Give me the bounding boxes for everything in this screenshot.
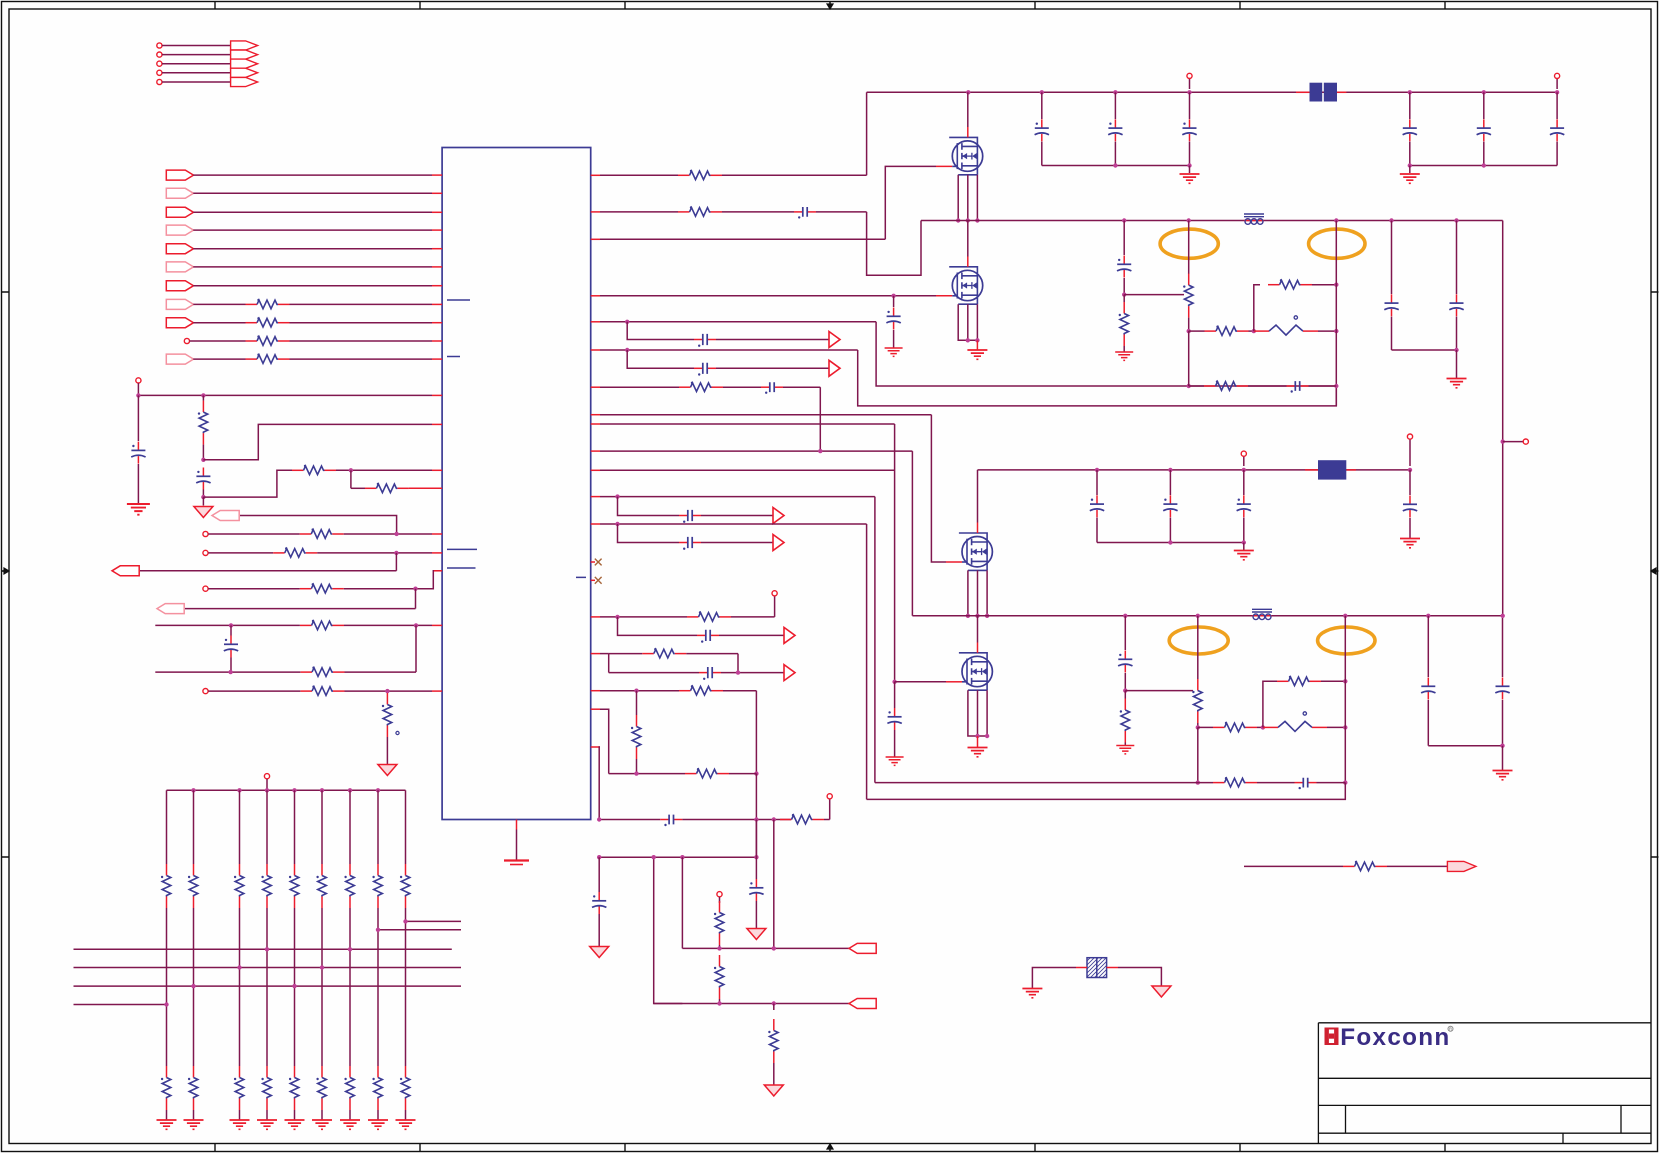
wire IN6 to U1 bbox=[193, 266, 432, 268]
wire Q2 drain from SW rail bbox=[967, 221, 969, 257]
capacitor C2 vertical bbox=[202, 468, 204, 477]
pull-up resistor RA2 bbox=[193, 790, 195, 864]
wire with series resistor R12 to U1 bbox=[190, 340, 246, 342]
capacitor C16 rail decoupling bbox=[1041, 92, 1043, 119]
wire OUT1 to jog into row 534 bbox=[240, 516, 397, 534]
wire IN3 to U1 bbox=[193, 211, 432, 213]
pull-up resistor RA3 bbox=[239, 790, 241, 864]
pin circle row 553 bbox=[203, 550, 208, 555]
wire U1 row 424 to Q4 gate riser bbox=[591, 423, 600, 425]
wire Q4 source bus to ground bbox=[968, 690, 987, 736]
capacitor C18 rail decoupling bbox=[1189, 92, 1191, 119]
wire U1 row 295 to Q2 gate bbox=[591, 295, 600, 297]
wire Q4 drain from SW2 rail bbox=[977, 616, 979, 643]
resistor R13 vertical to gnd arrow bbox=[773, 1019, 775, 1031]
inductor L1 symbol on SW1 rail bbox=[1244, 220, 1264, 222]
ground bbox=[257, 1120, 277, 1129]
pull-up resistor RA5 bbox=[294, 790, 296, 864]
pull-down resistor RB7 bbox=[349, 908, 351, 1066]
svg-text:Foxconn: Foxconn bbox=[1340, 1024, 1450, 1051]
wire R20 bottom to node 459.8 bbox=[202, 445, 204, 460]
pin circle row 691 bbox=[203, 689, 208, 694]
wire TP1 down to node bbox=[137, 383, 139, 395]
resistor R16 vertical bbox=[1188, 274, 1190, 286]
wire SW1 rail end drop x1503 bbox=[1502, 221, 1504, 616]
pull-up resistor RA4 bbox=[266, 790, 268, 864]
resistor R10 bbox=[597, 817, 601, 821]
wire U1 row 387 with R4 and C8 bbox=[591, 386, 600, 388]
capacitor C31 from SW2 bbox=[1123, 614, 1127, 618]
wire U1 row 747 drop to bottom rail bbox=[591, 746, 600, 748]
trimmer resistor VR2 bbox=[1263, 726, 1278, 728]
wire U1 right row 175 to top rail bbox=[591, 174, 600, 176]
output caps C24 C25 stage1 bbox=[1389, 218, 1393, 222]
test point circle TP1 bbox=[136, 378, 141, 383]
mid rail cap bus to ground bbox=[1097, 542, 1244, 544]
row 672 cap C12 to probe arrow bbox=[609, 672, 699, 674]
wire link row672 up to row 625 bbox=[415, 625, 417, 672]
wire row 534 with resistor R23 bbox=[208, 533, 299, 535]
wire row 1003 from jog bbox=[654, 857, 683, 1003]
wire IN4 to U1 bbox=[193, 229, 432, 231]
MOSFET Q4 low-side stage2 bbox=[959, 653, 993, 690]
wire drop x820 to row 451 bbox=[819, 387, 821, 451]
output port OUT3 left-pointing bbox=[157, 604, 184, 614]
MOSFET Q3 high-side stage2 bbox=[959, 533, 993, 570]
wire SW1 rail bbox=[921, 220, 1503, 222]
ground bbox=[127, 504, 150, 515]
output port OUT1 left-pointing bbox=[212, 511, 239, 521]
cap bank 2 bus to ground bbox=[1410, 165, 1557, 167]
wire row 589 with resistor R25 bbox=[208, 588, 299, 590]
stub to test circle x1527 bbox=[1503, 441, 1523, 443]
orange highlight ellipse 4 bbox=[1318, 627, 1375, 654]
pull-down resistor RB5 bbox=[294, 908, 296, 1066]
resistor R20 vertical bbox=[202, 401, 204, 413]
branch cap C7 to probe arrow bbox=[627, 350, 694, 368]
wire DC mid rail y470 bbox=[978, 469, 1411, 471]
orange highlight ellipse 2 bbox=[1309, 229, 1365, 258]
pull-down resistor RB8 bbox=[377, 908, 379, 1066]
wire bottom rail row 819 bbox=[599, 819, 660, 821]
test circle above row 819 bbox=[829, 799, 831, 820]
pull-down resistor RB4 bbox=[266, 908, 268, 1066]
wire row 553 with resistor R24 bbox=[208, 552, 273, 554]
wire U1 row 322 to feedback loop bbox=[591, 321, 600, 323]
divider circle TP bbox=[717, 892, 722, 897]
capacitor C21 output filter bbox=[1556, 92, 1558, 119]
pull-down resistor RB9 bbox=[405, 908, 407, 1066]
connector pin P2 with wire and output arrow bbox=[157, 52, 162, 57]
capacitor C17 rail decoupling bbox=[1114, 92, 1116, 119]
trimmer resistor VR1 bbox=[1254, 330, 1269, 332]
connector pin P5 with wire and output arrow bbox=[157, 79, 162, 84]
ground bbox=[312, 1120, 332, 1129]
capacitor C1 to ground bbox=[137, 395, 139, 441]
wire node497 jog up to row 470 with resistor R21 bbox=[203, 470, 292, 497]
wire U1 row 497 loop A bbox=[591, 496, 600, 498]
cap bank bus to ground bbox=[1042, 165, 1190, 167]
capacitor C13 bbox=[682, 819, 791, 821]
resistor R32 vertical bbox=[1197, 679, 1199, 691]
wire row 727 with resistor R33 and trimmer bbox=[1198, 726, 1213, 728]
fuse/bead F2 block bbox=[1305, 469, 1318, 471]
wire with series resistor R10 to U1 bbox=[193, 303, 245, 305]
Foxconn logo mark bbox=[1325, 1028, 1339, 1046]
wire link 654 to 672 bbox=[608, 654, 610, 673]
ground bbox=[285, 1120, 305, 1129]
resistor R11 vertical bbox=[719, 901, 721, 913]
branch cap C11 to probe arrow bbox=[618, 617, 698, 636]
resistor array top bus bbox=[167, 789, 406, 791]
connector pin P1 with wire and output arrow bbox=[157, 43, 162, 48]
output port right-pointing bbox=[1447, 861, 1476, 871]
wire sense leg x1345 bbox=[1343, 614, 1347, 618]
IC U1 internal pin marks bbox=[447, 300, 586, 577]
connector pin P3 with wire and output arrow bbox=[157, 61, 162, 66]
orange highlight ellipse 3 bbox=[1169, 627, 1228, 654]
capacitor C27 mid rail decoupling bbox=[1096, 470, 1098, 495]
capacitor C22 from SW1 bbox=[1122, 218, 1126, 222]
wire with series resistor R11 to U1 bbox=[193, 322, 245, 324]
wire divider leg x1188 bbox=[1187, 218, 1191, 222]
wire down to row 488 with resistor R22 bbox=[350, 470, 352, 488]
wire IN5 to U1 bbox=[193, 248, 432, 250]
capacitor C29 mid rail decoupling bbox=[1243, 470, 1245, 495]
output port left-pointing bbox=[849, 943, 876, 953]
capacitor C5 Q2 gate to ground bbox=[893, 296, 895, 307]
wire C31 node to R30 bbox=[1125, 690, 1193, 692]
resistor R15 vertical below node bbox=[1123, 302, 1125, 314]
test circle above rail end x1410 bbox=[1409, 439, 1411, 466]
ground bbox=[157, 1120, 177, 1129]
wire divider leg down to row 782 bbox=[1197, 727, 1199, 782]
input port IN4 bbox=[166, 225, 193, 235]
U1 bottom pin to ground bbox=[516, 820, 518, 830]
wire U1 pin 570.8 jog down to row 589 bbox=[416, 571, 443, 589]
wire x773 link rows 819-948 bbox=[773, 820, 775, 949]
capacitor C26 at rail end bbox=[1409, 470, 1411, 495]
test circle on rail x1189 bbox=[1189, 79, 1191, 90]
ground bbox=[230, 1120, 250, 1129]
wire U1 row 654 with resistor R6 bbox=[591, 653, 600, 655]
wire x682 link rows 857-948 bbox=[681, 857, 683, 948]
branch cap C6 to probe arrow bbox=[627, 322, 694, 340]
input port IN1 bbox=[166, 170, 193, 180]
output port left-pointing 2 bbox=[849, 999, 876, 1009]
wire U1 row 470 joins Q4 gate riser bbox=[591, 469, 600, 471]
wire SW2 rail bbox=[912, 615, 1502, 617]
resistor R29 vertical to ground arrow bbox=[386, 693, 388, 705]
pull-up resistor RA8 bbox=[377, 790, 379, 864]
wire U1 row 212 with resistor R3 and cap C4 bbox=[591, 211, 600, 213]
wire OUT3 row bbox=[185, 608, 416, 610]
wire IN1 to U1 bbox=[193, 174, 432, 176]
test circle above rail x1243 bbox=[1243, 456, 1245, 466]
wire sense leg x1336 bbox=[1334, 218, 1338, 222]
resistor R35 on row 782 bbox=[1213, 782, 1225, 784]
input port IN9 bbox=[166, 318, 193, 328]
wire feedback drop x876 bbox=[876, 322, 1336, 386]
wire Q3 drain from mid rail bbox=[977, 470, 979, 523]
MOSFET Q1 high-side bbox=[949, 137, 983, 174]
svg-text:R: R bbox=[1449, 1027, 1452, 1032]
ground bbox=[368, 1120, 388, 1129]
pull-up resistor RA9 bbox=[405, 790, 407, 864]
wire jog row212 to SW node bbox=[867, 212, 921, 275]
input port IN6 bbox=[166, 262, 193, 272]
MOSFET Q2 low-side bbox=[949, 267, 983, 304]
wire divider leg down to row 386 bbox=[1188, 331, 1190, 386]
connector pin P4 with wire and output arrow bbox=[157, 70, 162, 75]
wire node row y395 to U1 bbox=[138, 394, 432, 396]
wire loop B down x866 to row 799 bbox=[866, 524, 868, 799]
output caps C33 C34 stage2 bbox=[1426, 614, 1430, 618]
wire Q1 drain from rail bbox=[967, 92, 969, 127]
ground bbox=[340, 1120, 360, 1129]
wire top supply rail bbox=[867, 91, 1558, 93]
capacitor C19 output filter bbox=[1409, 92, 1411, 119]
wire C22 node to R14 bbox=[1124, 294, 1184, 296]
title block table bbox=[1318, 1023, 1651, 1144]
pin pad circle bbox=[184, 338, 189, 343]
wire link 589 down to connector row 608.6 bbox=[415, 589, 417, 609]
resistor R8 vertical bbox=[636, 715, 638, 727]
capacitor C28 mid rail decoupling bbox=[1169, 470, 1171, 495]
wire OUT2 row bbox=[140, 570, 396, 572]
wire U1 row 414 to Q3 gate riser bbox=[591, 414, 600, 416]
wire U1 row 524 loop B bbox=[591, 523, 600, 525]
feed circle for resistor array bus bbox=[264, 774, 269, 779]
array interconnect wires bbox=[406, 920, 462, 922]
capacitor C20 output filter bbox=[1483, 92, 1485, 119]
wire jog to U1 row 424 bbox=[203, 424, 432, 459]
test circle on rail x1557 bbox=[1556, 79, 1558, 90]
wire x756 down to cap C15 and gnd arrow bbox=[755, 820, 757, 880]
wire cap bottoms join bbox=[1428, 745, 1502, 747]
input port IN5 bbox=[166, 244, 193, 254]
feedback resistor R18 row 284 bbox=[1254, 285, 1260, 331]
fuse/bead F1 dual block bbox=[1296, 91, 1310, 93]
ground bbox=[184, 1120, 204, 1129]
input port IN3 bbox=[166, 207, 193, 217]
wire U1 row 239 to Q1 gate riser bbox=[591, 238, 600, 240]
wire U1 row 688 with resistor R7 bbox=[591, 690, 600, 692]
resistor R31 vertical below node bbox=[1124, 699, 1126, 711]
orange highlight ellipse 1 bbox=[1160, 229, 1218, 258]
pull-down resistor RB3 bbox=[239, 908, 241, 1066]
wire RT1 left to ground bbox=[1076, 967, 1087, 969]
wire Q1 source bus to SW rail bbox=[958, 175, 977, 221]
wire Q4 gate junction and cap C30 bbox=[892, 680, 896, 684]
wire drop x857 to row 406 bbox=[858, 350, 1337, 406]
wire output feed with resistor R36 to port bbox=[1244, 865, 1343, 867]
branch cap C9 to probe arrow bbox=[618, 497, 680, 516]
ground arrow below node497 bbox=[202, 497, 204, 505]
IC U1 main controller body bbox=[442, 148, 591, 820]
capacitor C23 on row 386 bbox=[1287, 385, 1296, 387]
pull-down resistor RB1 bbox=[166, 908, 168, 1066]
no-connect X pins bbox=[591, 561, 595, 563]
pull-up resistor RA1 bbox=[166, 790, 168, 864]
wire U1 row 709 jog to row 773 bbox=[591, 708, 600, 710]
wire right leg 757 down bbox=[755, 691, 757, 774]
wire 757 down to bottom network bbox=[755, 774, 757, 858]
wire rail riser x866 bbox=[866, 92, 868, 175]
wire loop A down x875 to row 783 bbox=[874, 497, 876, 783]
wire IN7 to U1 bbox=[193, 285, 432, 287]
wire C2 to node 497 bbox=[202, 490, 204, 498]
wire row 691 with resistor R28 bbox=[208, 690, 300, 692]
wire row 799 loop B return bbox=[867, 783, 1346, 800]
wire row 672 with resistor R27 bbox=[155, 671, 300, 673]
pin circle row 534 bbox=[203, 531, 208, 536]
wire x599 down to cap C14 and gnd arrow bbox=[598, 857, 600, 892]
frame center arrows bbox=[827, 2, 833, 9]
wire Q3 source bus to SW2 rail bbox=[968, 570, 987, 615]
pull-down resistor RB6 bbox=[321, 908, 323, 1066]
pull-up resistor RA6 bbox=[321, 790, 323, 864]
wire row 625 with resistor R26 bbox=[155, 624, 300, 626]
input port IN11 bbox=[166, 354, 193, 364]
wire divider leg x1197 bbox=[1196, 614, 1200, 618]
ground arrow bbox=[378, 765, 397, 776]
pull-down resistor RB2 bbox=[193, 908, 195, 1066]
junction bbox=[136, 393, 140, 397]
capacitor C32 on row 782 bbox=[1295, 782, 1304, 784]
input port IN2 bbox=[166, 188, 193, 198]
input port IN8 bbox=[166, 299, 193, 309]
resistor R12 vertical bbox=[719, 955, 721, 967]
wire RT1 right to gnd arrow bbox=[1107, 967, 1118, 969]
pin circle row 589 bbox=[203, 586, 208, 591]
wire U1 row 451 to SW2 riser bbox=[591, 450, 600, 452]
wire row 331 with resistor R17 and trimmer bbox=[1189, 330, 1205, 332]
pull-up resistor RA7 bbox=[349, 790, 351, 864]
wire U1 row 617 with resistor R5 to test circle bbox=[591, 616, 600, 618]
output port OUT2 left-pointing bbox=[112, 566, 139, 576]
capacitor C3 between rows bbox=[230, 625, 232, 635]
feedback resistor R34 row 681 bbox=[1263, 681, 1277, 727]
wire Q2 source bus to ground bbox=[958, 304, 977, 340]
wire row 782 loop A return bbox=[875, 782, 1213, 784]
wire row 857 bbox=[599, 856, 756, 858]
branch cap C10 to probe arrow bbox=[618, 524, 680, 543]
ground bbox=[396, 1120, 416, 1129]
wire U1 row 350 bbox=[591, 349, 600, 351]
wire with series resistor R13 to U1 bbox=[193, 358, 245, 360]
wire row 773 with resistor R9 bbox=[609, 773, 685, 775]
input port IN7 bbox=[166, 281, 193, 291]
inductor L2 symbol on SW2 rail bbox=[1252, 615, 1272, 617]
wire R20 top to row bbox=[202, 395, 204, 400]
wire IN2 to U1 bbox=[193, 192, 432, 194]
wire cap bottoms to ground bbox=[1392, 349, 1457, 351]
wire link 553 to 570.8 bbox=[395, 553, 397, 571]
resistor R19 on row 386 bbox=[1204, 385, 1216, 387]
wire row 948 to port bbox=[682, 947, 849, 949]
